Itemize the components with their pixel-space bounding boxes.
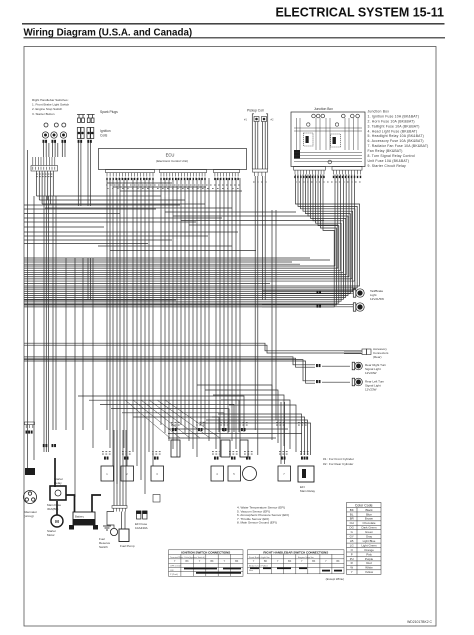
ECU harness wire [188, 178, 190, 441]
harness bundle wire [132, 178, 134, 452]
diagonal feed wire [149, 400, 200, 438]
svg-text:(unreg): (unreg) [24, 514, 34, 518]
link wire [120, 190, 242, 192]
svg-text:Fan Relay (BK&BAT): Fan Relay (BK&BAT) [368, 149, 403, 153]
svg-text:Red: Red [366, 561, 372, 565]
ECU connector strip C [214, 170, 240, 181]
centre harness wire [271, 210, 273, 420]
junction box terminal 6 [356, 114, 360, 118]
turn lamp wire [322, 381, 350, 383]
svg-text:6. Accessory Fuse 10A (BK&BAT): 6. Accessory Fuse 10A (BK&BAT) [368, 139, 424, 143]
lower link wire [89, 400, 239, 432]
svg-text:Front Brake Light Sw: Front Brake Light Sw [249, 556, 270, 559]
main harness wire [90, 258, 92, 300]
fuel pump harness wire [116, 430, 118, 506]
water temperature sensor [211, 466, 224, 481]
injector connector 2 [198, 428, 203, 431]
engine stop switch SW2 [51, 132, 57, 138]
bus wire [24, 231, 238, 233]
junction box harness wire to bus [24, 175, 355, 282]
svg-text:Brown: Brown [365, 517, 374, 521]
bus wire [24, 263, 300, 265]
bus wire [24, 239, 172, 241]
right handlebar switch connector [31, 157, 58, 171]
connection bar [223, 568, 241, 570]
connection bar [250, 567, 259, 569]
bus wire [24, 226, 104, 228]
svg-text:Main Relay: Main Relay [300, 489, 316, 493]
svg-text:IGNITION SWITCH CONNECTIONS: IGNITION SWITCH CONNECTIONS [181, 550, 230, 554]
svg-text:BL: BL [350, 512, 354, 516]
fuel pump wire [121, 512, 123, 530]
sensor connector 3 [154, 457, 159, 460]
ECU harness wire [180, 178, 182, 425]
switch lead wire [43, 143, 45, 157]
handlebar connector pin codes [36, 174, 52, 178]
connector pins under brake switch [43, 140, 48, 143]
svg-text:8. Turn Signal Relay Control: 8. Turn Signal Relay Control [368, 154, 416, 158]
svg-text:Light Green: Light Green [361, 543, 376, 547]
ECU (Electronic Control Unit) [99, 149, 247, 170]
switch lead wire [61, 143, 63, 157]
sensor connector 7 [281, 457, 286, 460]
link wire [39, 199, 185, 201]
tail lamp feed wire [262, 303, 353, 305]
accessory feed wire [24, 343, 361, 351]
right turn signal connector [316, 364, 321, 367]
svg-text:Dark Green: Dark Green [362, 526, 377, 530]
harness wire to EFI relay [206, 420, 308, 455]
section rule [24, 37, 446, 39]
bus wire [24, 243, 148, 245]
junction box terminal 2 [316, 114, 320, 118]
starter circuit relay K2 [331, 134, 341, 147]
link wire [37, 195, 162, 197]
left harness connector 2 [52, 444, 57, 447]
harness bundle wire [148, 178, 150, 452]
junction box harness wire to bus [24, 175, 348, 296]
label: EFI Main Relay [300, 485, 316, 493]
connection bar [196, 572, 241, 574]
tail light connector 2 [317, 305, 322, 308]
fuel pump harness wire [119, 430, 121, 506]
svg-text:12V23W: 12V23W [365, 388, 377, 392]
fuel injector 2 [221, 440, 230, 457]
sensor box 1 [101, 466, 114, 481]
link wire [107, 182, 172, 184]
reserve switch wire [107, 512, 114, 529]
svg-text:Unit Fuse 10A (BK&BAT): Unit Fuse 10A (BK&BAT) [368, 159, 410, 163]
sensor feed wire [205, 390, 278, 443]
svg-text:Gray: Gray [366, 535, 373, 539]
lower link wire [122, 413, 224, 432]
junction box harness wire to bus [24, 175, 343, 300]
svg-text:9. Starter Circuit Relay: 9. Starter Circuit Relay [368, 164, 407, 168]
svg-text:Motor: Motor [47, 533, 55, 537]
sensor feed wire [197, 385, 272, 440]
front brake light switch SW1 [42, 132, 48, 138]
wire colour code marks [102, 182, 361, 455]
svg-text:Y: Y [351, 570, 353, 574]
ECU harness wire [208, 178, 210, 441]
junction box harness wire to bus [24, 175, 352, 279]
diagram border frame [24, 47, 436, 627]
bus wire [24, 204, 180, 206]
turn lamp wire [322, 365, 350, 367]
link wire [189, 224, 338, 226]
pickup coil cable sheath [267, 124, 269, 169]
svg-text:BK: BK [336, 561, 340, 563]
svg-text:Yellow: Yellow [365, 570, 374, 574]
connector pins under coil 1 [78, 140, 83, 143]
main harness wire [87, 258, 89, 300]
label: Rear Right Turn Signal [365, 363, 387, 375]
bus wire [24, 261, 292, 263]
accessory wire [344, 353, 362, 355]
main harness wire [27, 150, 29, 470]
switch lead wire [57, 143, 59, 157]
colour code table [347, 503, 382, 575]
svg-text:4. Head Light Fuse (BK&BAT): 4. Head Light Fuse (BK&BAT) [368, 129, 418, 133]
bus wire [24, 208, 156, 210]
link wire [165, 211, 296, 213]
svg-text:BK: BK [210, 561, 214, 563]
junction box harness wire to bus [24, 175, 350, 294]
junction box terminal 3 [321, 114, 325, 118]
svg-text:Blue: Blue [366, 512, 372, 516]
ECU harness wire [160, 178, 162, 425]
pickup coil harness wire [254, 176, 256, 196]
ECU harness wire [231, 178, 233, 441]
diagonal feed wire [125, 400, 170, 438]
diagonal feed wire [141, 400, 190, 438]
handlebar harness wire [50, 171, 52, 204]
sensor connector 1 [104, 457, 109, 460]
junction box harness wire to bus [24, 175, 335, 267]
fuel pump harness wire [122, 430, 124, 506]
svg-text:Right Handlebar Switches:: Right Handlebar Switches: [32, 98, 69, 102]
switch lead wire [54, 143, 56, 157]
svg-text:#1 : For Front Cylinder: #1 : For Front Cylinder [323, 457, 354, 461]
label: Ignition Coils [100, 129, 111, 137]
tail light connector 1 [317, 291, 322, 294]
lower link wire [133, 417, 219, 432]
junction box harness wire to bus [24, 175, 338, 269]
svg-text:5. Headlight Relay 10A (BK&BAT: 5. Headlight Relay 10A (BK&BAT) [368, 134, 424, 138]
tail/brake light bulb 2 [353, 303, 364, 311]
bus wire [24, 259, 330, 261]
pickup coil lead [262, 122, 264, 170]
pickup coil connector [253, 169, 268, 176]
link wire [45, 207, 232, 209]
main harness wire [82, 258, 84, 430]
svg-text:BR: BR [350, 517, 354, 521]
alternator G1 [24, 491, 37, 504]
harness bundle wire [119, 178, 121, 430]
junction box bottom terminal [328, 160, 332, 164]
ECU harness wire [168, 178, 170, 441]
starter button SW3 [60, 132, 66, 138]
handlebar harness wire [52, 171, 54, 196]
pickup coil lead [254, 122, 256, 170]
svg-text:DG: DG [350, 526, 355, 530]
main harness wire [43, 196, 45, 452]
link wire [181, 220, 324, 222]
svg-text:White: White [365, 566, 373, 570]
diagonal feed wire [133, 400, 180, 438]
junction box harness wire to bus [24, 175, 355, 290]
svg-text:M: M [55, 519, 59, 524]
ignition coil lead [90, 143, 92, 206]
label: Alternator [24, 510, 37, 518]
accessory wire [344, 350, 362, 352]
harness wire to EFI relay [200, 423, 311, 455]
sensor box 2 [121, 466, 134, 481]
junction box harness wire to bus [24, 175, 337, 306]
spark plug 2 [81, 115, 85, 123]
svg-text:Light Blue: Light Blue [363, 539, 376, 543]
fuel pump connector [112, 506, 127, 512]
ignition coil 1 [77, 128, 84, 139]
pickup harness wire [254, 196, 256, 430]
pickup coil lead [257, 122, 259, 170]
fuel injector 1 [171, 440, 180, 457]
svg-text:Color Code: Color Code [355, 503, 373, 507]
svg-text:Pickup Coil: Pickup Coil [247, 109, 264, 113]
svg-text:2. Horn Fuse 10A (BK&BAT): 2. Horn Fuse 10A (BK&BAT) [368, 119, 415, 123]
svg-text:GY: GY [350, 535, 354, 539]
starter motor M1 [51, 515, 63, 527]
main harness wire [48, 196, 50, 452]
label: Rear Left Turn Signal [365, 380, 385, 392]
junction box connector right [332, 167, 362, 179]
bus wire [24, 257, 310, 259]
left frame connector [25, 422, 35, 428]
switch lead wire [64, 143, 66, 157]
main harness wire [65, 258, 67, 430]
label: Starter Motor [47, 529, 56, 537]
svg-text:CH: CH [350, 521, 354, 525]
svg-text:Black: Black [365, 508, 373, 512]
label: junction box legend [368, 110, 429, 168]
junction box harness wire to bus [24, 175, 346, 298]
rear left turn signal bulb [352, 378, 362, 386]
ECU harness wire [204, 178, 206, 433]
handlebar harness wire [44, 171, 46, 196]
sensor connector 2 [124, 457, 129, 460]
junction box harness wire to bus [24, 175, 349, 277]
lower link wire [78, 396, 244, 432]
harness bundle wire [123, 178, 125, 448]
svg-text:P: P [351, 552, 353, 556]
lower link wire [111, 409, 229, 432]
sensor connector 6 [246, 457, 251, 460]
bus wire [24, 213, 120, 215]
svg-text:Coils: Coils [100, 133, 108, 137]
pickup coil cable sheath [251, 124, 253, 169]
EFI main relay K4 [298, 466, 314, 482]
ECU harness wire [172, 178, 174, 449]
diagonal feed wire [157, 400, 210, 438]
harness bundle wire [152, 178, 154, 466]
fuse 2 symbol [335, 123, 338, 126]
label: Right Handlebar Switches list [32, 98, 69, 116]
sensor connector 4 [214, 457, 219, 460]
sensor feed wire [280, 402, 282, 464]
connector pins under stop switch [52, 140, 57, 143]
left harness connector 1 [43, 444, 48, 447]
left turn feed wire [24, 360, 315, 381]
ECU harness wire [227, 178, 229, 433]
harness bundle wire [126, 178, 128, 466]
fuel reserve switch SW4 [110, 528, 117, 535]
svg-text:Brake Lever Pulled: Brake Lever Pulled [249, 565, 268, 568]
handlebar harness wire [41, 171, 43, 204]
ECU connector strip B [160, 170, 207, 181]
ECU harness wire [215, 178, 217, 449]
ignition coil 2 [87, 128, 94, 139]
harness bundle wire [136, 178, 138, 466]
left turn signal connector [316, 380, 321, 383]
svg-text:1. Ignition Fuse 10A (BK&BAT): 1. Ignition Fuse 10A (BK&BAT) [368, 115, 420, 119]
injector connector 1 [172, 428, 177, 431]
harness wire [264, 196, 266, 300]
svg-text:#2 : For Rear Cylinder: #2 : For Rear Cylinder [323, 462, 353, 466]
harness bundle wire [144, 178, 146, 494]
battery B1 [73, 512, 95, 525]
ECU harness wire [192, 178, 194, 449]
vacuum sensor [228, 466, 241, 481]
sensor connector 5 [231, 457, 236, 460]
label: sensor legend [237, 506, 289, 525]
injector connector 3 [222, 428, 227, 431]
ECU harness wire [184, 178, 186, 433]
junction box harness wire to bus [24, 175, 360, 287]
pickup coil harness wire [257, 176, 259, 196]
ignition coil lead [87, 143, 89, 206]
bus wire [24, 299, 176, 301]
ECU connector strip A [106, 170, 155, 181]
harness bundle wire [109, 178, 111, 448]
right turn feed wire [24, 357, 315, 365]
label: Main Fuse [47, 503, 61, 511]
spark plug 1 [77, 115, 81, 123]
junction box internal wiring [294, 118, 362, 162]
svg-text:Chocolate: Chocolate [362, 521, 375, 525]
fuel pump P1 [119, 529, 129, 542]
svg-text:LB: LB [350, 539, 354, 543]
main harness wire [33, 196, 35, 460]
harness bundle wire [112, 178, 114, 466]
junction box harness wire to bus [24, 175, 341, 271]
rear right turn signal bulb [352, 362, 362, 370]
handlebar harness wire [38, 171, 40, 200]
handlebar harness wire [47, 171, 49, 200]
label: cylinder note [323, 457, 354, 466]
switch terminal ring 2 [54, 123, 58, 127]
starter relay K3 [50, 486, 66, 500]
sensor bus wire [168, 428, 288, 430]
ignition coil lead [77, 143, 79, 206]
handlebar harness wire [36, 171, 38, 196]
svg-text:8. Main Sensor Ground (EFI): 8. Main Sensor Ground (EFI) [237, 521, 277, 525]
ECU harness wire [200, 178, 202, 425]
sensor feed wire [221, 400, 290, 449]
svg-text:2. Engine Stop Switch: 2. Engine Stop Switch [32, 107, 63, 111]
injector connector 4 [241, 428, 246, 431]
ignition switch connection table [169, 550, 244, 577]
alternator connector [25, 468, 35, 475]
pickup coil bracket [252, 114, 254, 124]
lower link wire [100, 404, 234, 432]
connector pins under coil 2 [87, 140, 92, 143]
ECU harness wire [164, 178, 166, 433]
svg-text:Spark Plugs: Spark Plugs [100, 110, 118, 114]
svg-text:Purple: Purple [365, 557, 374, 561]
svg-text:BK: BK [288, 561, 292, 563]
ECU harness wire [219, 178, 221, 457]
label: Fuel Reserve Switch [99, 537, 111, 549]
junction box harness wire to bus [24, 175, 353, 292]
switch terminal ring 1 [44, 123, 48, 127]
spark plug 3 [87, 115, 91, 123]
spare fuse box [153, 495, 160, 503]
water temp component [240, 440, 248, 457]
pickup coil sensors [254, 117, 267, 122]
sensor feed wire [229, 405, 296, 452]
pickup coil bracket [266, 114, 268, 124]
label: Accessory Connectors [373, 347, 389, 359]
ECU harness wire [239, 178, 241, 457]
fuel pump harness wire [113, 430, 115, 506]
ignition table row labels [170, 556, 205, 576]
svg-text:Pink: Pink [366, 552, 372, 556]
svg-text:Orange: Orange [364, 548, 374, 552]
svg-text:3. Taillight Fuse 10A (BK&BAT): 3. Taillight Fuse 10A (BK&BAT) [368, 124, 420, 128]
connection bar [322, 570, 330, 572]
label: Tail/Brake Light [370, 289, 384, 301]
ground lug right [93, 525, 98, 530]
link wire [173, 215, 310, 217]
svg-text:BK: BK [186, 561, 190, 563]
ground lug left [69, 525, 74, 530]
link wire [42, 203, 205, 205]
switch lead wire [48, 143, 50, 157]
svg-text:BK: BK [235, 561, 239, 563]
harness wire [262, 196, 264, 300]
junction box terminal 4 [342, 114, 346, 118]
main harness wire [92, 258, 94, 448]
centre harness wire [275, 210, 277, 420]
svg-text:3. Starter Button: 3. Starter Button [32, 112, 55, 116]
svg-text:W: W [350, 566, 353, 570]
pickup coil lead [264, 122, 266, 170]
svg-text:(Electronic Control Unit): (Electronic Control Unit) [156, 159, 188, 163]
EFI relay connector [301, 457, 308, 460]
svg-text:ON: ON [170, 570, 174, 572]
svg-text:10A&30A: 10A&30A [135, 526, 148, 530]
headlight relay K1 [304, 133, 314, 146]
sensor box 3 [151, 466, 164, 481]
connector pins under starter button [62, 140, 67, 143]
svg-text:P (Park): P (Park) [170, 573, 178, 576]
svg-text:Engine Stop Sw: Engine Stop Sw [298, 556, 314, 559]
svg-text:R: R [351, 561, 353, 565]
switch lead wire [51, 143, 53, 157]
tail lamp feed wire [262, 290, 353, 292]
atmospheric pressure sensor (round) [243, 467, 257, 481]
svg-text:Wiring Diagram (U.S.A. and Can: Wiring Diagram (U.S.A. and Canada) [24, 27, 193, 38]
